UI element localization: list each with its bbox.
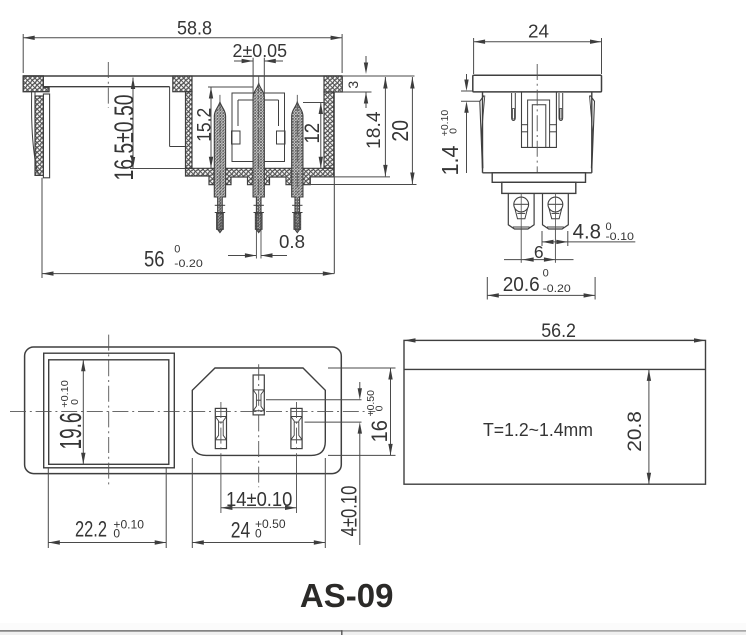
pin L axis — [220, 402, 222, 513]
dimension 22.2 window width — [48, 467, 166, 548]
pin N axis — [296, 402, 298, 513]
dimension 15.2 cavity depth — [193, 87, 253, 168]
svg-text:56: 56 — [144, 247, 165, 272]
left snap leg — [32, 92, 50, 178]
fuse window inner — [49, 360, 169, 465]
svg-text:20.6: 20.6 — [503, 274, 540, 296]
centerline left fuse axis — [107, 62, 109, 108]
dimension 18.4 body height — [310, 76, 414, 177]
svg-text:2±0.05: 2±0.05 — [233, 41, 288, 61]
svg-text:0: 0 — [255, 526, 262, 540]
svg-text:20.8: 20.8 — [625, 411, 646, 452]
dimension 0.8 pin thickness — [228, 232, 305, 258]
vertical centerline fuse — [108, 335, 110, 488]
svg-text:6: 6 — [534, 242, 544, 262]
svg-text:1.4: 1.4 — [437, 145, 463, 175]
horizontal centerline — [10, 411, 375, 413]
top mounting plate — [23, 76, 342, 87]
dimension 56.2 cut-out width — [541, 321, 576, 342]
pin L — [215, 408, 226, 448]
svg-text:16.5±0.50: 16.5±0.50 — [109, 95, 139, 181]
svg-text:24: 24 — [528, 22, 549, 42]
svg-text:AS-09: AS-09 — [300, 577, 394, 614]
flange — [473, 75, 602, 92]
pin N — [291, 408, 302, 448]
dimension 16 inlet height — [328, 368, 396, 455]
centerline view2 — [536, 64, 538, 173]
terminal right — [543, 193, 569, 262]
svg-text:-0.20: -0.20 — [174, 258, 203, 270]
ground pin E — [253, 375, 264, 415]
dimension 6 pin pitch — [504, 242, 574, 262]
left snap latch — [480, 96, 485, 169]
label T=1.2~1.4mm — [483, 419, 593, 440]
dimension 19.6 window height — [53, 360, 88, 465]
svg-text:0.8: 0.8 — [279, 232, 305, 252]
svg-text:+0.50: +0.50 — [365, 390, 377, 417]
svg-text:0: 0 — [374, 405, 386, 411]
left flange block (hatched) — [23, 76, 49, 92]
pin left (section) — [214, 95, 225, 233]
dimension 20.8 cut-out height — [625, 369, 651, 484]
terminal left — [508, 193, 534, 262]
dimension 14±0.10 pin pitch — [221, 489, 297, 511]
svg-text:58.8: 58.8 — [177, 18, 212, 39]
svg-text:0: 0 — [448, 128, 460, 134]
dimension 3 flange thickness — [334, 56, 371, 108]
inlet recess outline — [192, 368, 325, 455]
svg-text:15.2: 15.2 — [193, 108, 215, 142]
view 4: mounting cut-out — [404, 338, 706, 484]
svg-text:4±0.10: 4±0.10 — [336, 486, 361, 537]
center ground tower — [522, 92, 557, 147]
dimension 1.4 panel gap — [437, 74, 480, 176]
model label AS-09 — [300, 577, 394, 614]
cavity floor with feet (hatched) — [186, 168, 334, 184]
dimension 4±0.10 pin offset — [266, 382, 362, 545]
svg-text:-0.10: -0.10 — [606, 231, 635, 243]
svg-text:-0.20: -0.20 — [543, 283, 571, 295]
dimension 56 bottom width — [42, 178, 334, 278]
vertical centerline inlet — [258, 364, 260, 487]
svg-text:12: 12 — [301, 123, 324, 144]
fuse window outer — [44, 353, 175, 468]
bottom steps — [492, 173, 585, 194]
svg-text:0: 0 — [113, 526, 120, 540]
bottom page bar — [0, 623, 746, 635]
left vent slot — [512, 93, 516, 121]
svg-text:19.6: 19.6 — [53, 413, 88, 450]
svg-text:3: 3 — [345, 81, 361, 89]
pin center (section) — [253, 76, 264, 258]
svg-text:20: 20 — [387, 120, 413, 142]
dimension 2±0.05 pin width — [233, 41, 288, 97]
dimension 16.5±0.50 snap depth — [109, 78, 186, 181]
svg-text:0: 0 — [174, 244, 180, 256]
contact cage outline — [232, 93, 286, 162]
svg-text:0: 0 — [69, 399, 81, 405]
face outline — [25, 347, 342, 474]
right vent slot — [559, 93, 563, 121]
svg-text:0: 0 — [543, 267, 549, 279]
svg-text:T=1.2~1.4mm: T=1.2~1.4mm — [483, 419, 593, 440]
right snap latch — [590, 96, 595, 169]
svg-text:22.2: 22.2 — [75, 516, 107, 541]
dimension 20.6 body width — [487, 267, 595, 299]
svg-text:18.4: 18.4 — [364, 111, 385, 149]
svg-text:16: 16 — [367, 420, 392, 442]
dimension 58.8 overall width — [23, 18, 342, 73]
dimension 4.8 terminal width — [542, 219, 635, 246]
pin right (section) — [292, 95, 303, 233]
svg-text:14±0.10: 14±0.10 — [226, 489, 292, 511]
dimension 20 overall height — [305, 77, 417, 185]
body sides — [483, 92, 592, 173]
svg-text:4.8: 4.8 — [573, 219, 601, 243]
dimension 24 flange width — [474, 22, 602, 75]
right flange block and wall (hatched) — [324, 76, 342, 274]
svg-text:56.2: 56.2 — [541, 321, 576, 342]
left cavity wall (hatched) — [170, 76, 192, 168]
dimension 24 inlet width — [192, 458, 325, 548]
dimension 12 pin reach — [301, 103, 325, 169]
svg-text:24: 24 — [231, 518, 251, 543]
